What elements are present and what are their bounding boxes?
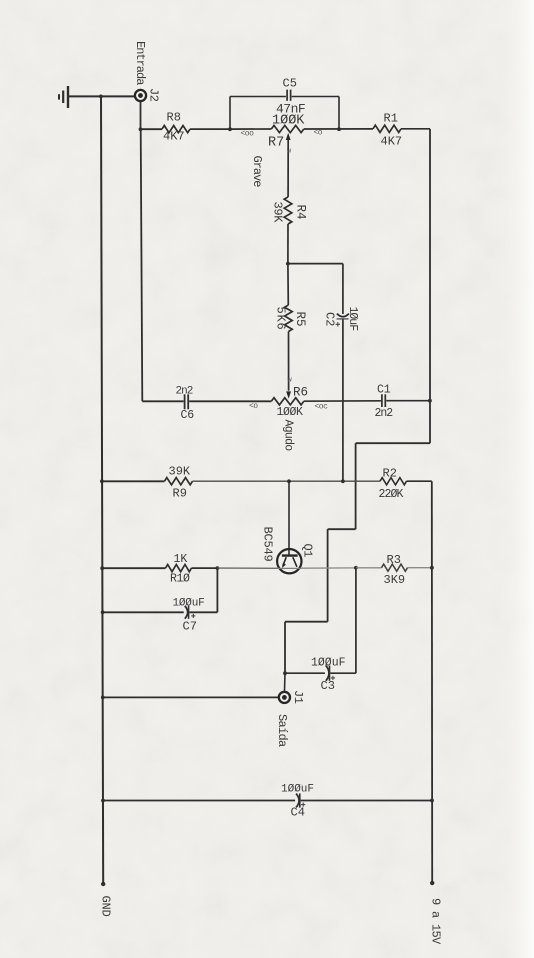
svg-text:GND: GND — [99, 896, 113, 917]
svg-text:C6: C6 — [181, 409, 195, 422]
svg-text:<oc: <oc — [315, 403, 329, 412]
svg-text:4K7: 4K7 — [381, 135, 403, 149]
svg-text:22ØK: 22ØK — [379, 488, 404, 501]
svg-text:R7: R7 — [268, 136, 284, 151]
svg-text:Entrada: Entrada — [133, 41, 147, 85]
svg-text:J2: J2 — [147, 88, 161, 102]
svg-text:1ØuF: 1ØuF — [346, 307, 359, 332]
svg-text:BC549: BC549 — [261, 527, 275, 562]
svg-text:4K7: 4K7 — [163, 130, 185, 144]
svg-text:Agudo: Agudo — [282, 420, 295, 452]
svg-text:C2: C2 — [323, 312, 337, 326]
svg-text:1ØØuF: 1ØØuF — [281, 784, 314, 796]
svg-text:1ØØK: 1ØØK — [277, 406, 304, 419]
svg-text:R3: R3 — [387, 553, 401, 567]
svg-text:1ØØK: 1ØØK — [272, 114, 305, 129]
svg-text:5K6: 5K6 — [274, 307, 288, 331]
svg-text:R2: R2 — [383, 467, 397, 481]
svg-text:R1Ø: R1Ø — [170, 573, 190, 586]
svg-text:R8: R8 — [167, 111, 181, 125]
svg-text:39K: 39K — [169, 465, 191, 479]
svg-text:39K: 39K — [271, 202, 285, 224]
svg-text:<o: <o — [249, 402, 258, 411]
svg-text:<oo: <oo — [241, 130, 255, 139]
svg-text:C5: C5 — [283, 77, 297, 91]
svg-text:2n2: 2n2 — [375, 407, 394, 420]
svg-text:2n2: 2n2 — [176, 386, 193, 398]
svg-text:Saída: Saída — [275, 714, 289, 747]
svg-text:3K9: 3K9 — [384, 573, 406, 587]
svg-text:C7: C7 — [183, 620, 197, 634]
svg-text:C4: C4 — [291, 806, 305, 820]
svg-text:Q1: Q1 — [301, 544, 315, 558]
svg-text:C1: C1 — [377, 384, 391, 397]
svg-text:J1: J1 — [291, 690, 305, 704]
svg-text:Grave: Grave — [250, 156, 264, 188]
svg-text:<o: <o — [314, 129, 323, 138]
svg-text:1ØØuF: 1ØØuF — [173, 598, 205, 610]
svg-text:C3: C3 — [321, 679, 335, 693]
svg-text:R5: R5 — [293, 312, 307, 327]
svg-text:R6: R6 — [293, 386, 308, 400]
svg-text:1ØØuF: 1ØØuF — [311, 657, 346, 670]
svg-text:1K: 1K — [174, 553, 188, 566]
svg-text:R4: R4 — [294, 205, 308, 220]
svg-text:R9: R9 — [173, 487, 187, 501]
svg-text:R1: R1 — [384, 112, 398, 126]
svg-text:9 a 15V: 9 a 15V — [429, 898, 443, 945]
